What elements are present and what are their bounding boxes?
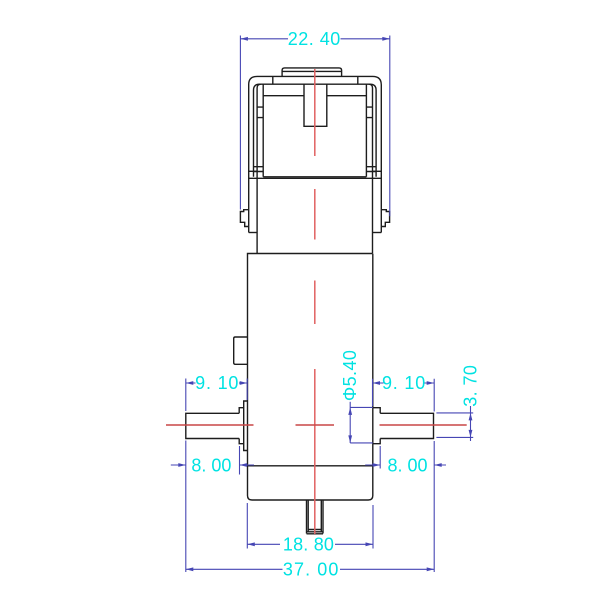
dim 9.10 left ext lines: [186, 379, 247, 412]
arrow 9.10 right-right: [427, 381, 435, 385]
arrow 8.00 right outside-right: [434, 463, 442, 467]
dim 3.70 ext lines: [436, 413, 473, 438]
arrow 37.00 left: [186, 567, 194, 571]
arrow 22.40 left: [240, 37, 248, 41]
gearbox left tab: [234, 337, 248, 364]
end bell bottom line: [263, 176, 366, 178]
arrow 18.80 left: [247, 542, 255, 546]
left lower notch: [254, 167, 264, 172]
right flange: [373, 408, 380, 444]
bottom shaft tip cap: [307, 530, 324, 534]
motor inner shell rim right: [370, 84, 376, 177]
vertical centre line: [314, 69, 316, 534]
arrow 8.00 right outside-left: [373, 463, 381, 467]
svg-text:Φ5.40: Φ5.40: [340, 350, 360, 401]
dim 18.80 line: [247, 543, 373, 545]
svg-text:9. 10: 9. 10: [382, 373, 426, 393]
plateau step left: [272, 76, 274, 84]
arrow 18.80 right: [366, 542, 374, 546]
plateau step right: [357, 76, 359, 84]
can crimp line: [249, 177, 381, 179]
svg-text:8. 00: 8. 00: [191, 455, 231, 475]
arrow 9.10 left-left: [186, 381, 194, 385]
left wall ticks: [257, 107, 263, 118]
crimp ledge right: [373, 170, 382, 172]
blue dimension graphics: [171, 36, 473, 573]
dim phi5.40 ext lines: [350, 407, 373, 443]
right shaft tip ext line lower: [433, 441, 435, 572]
inner face line: [263, 95, 366, 97]
svg-text:8. 00: 8. 00: [387, 455, 427, 475]
svg-text:37. 00: 37. 00: [283, 560, 340, 580]
arrow phi5.40 down: [348, 435, 352, 443]
end face sub walls left: [257, 84, 263, 253]
dim 37.00 line: [186, 568, 434, 570]
arrow 8.00 left outside-right: [240, 463, 248, 467]
dim 9.10 left line: [186, 382, 247, 384]
arrow 3.70 down: [469, 430, 473, 438]
right wall ticks: [366, 107, 372, 118]
left boss disc: [244, 401, 248, 451]
right axle: [380, 413, 433, 438]
svg-text:3. 70: 3. 70: [461, 365, 481, 407]
dim phi5.40 line: [349, 402, 351, 443]
left shaft tip ext line lower: [185, 441, 187, 573]
arrow 37.00 right: [427, 567, 435, 571]
horizontal axle centre line: [166, 424, 467, 426]
dim 18.80 ext lines: [247, 503, 373, 549]
end face sub walls right: [366, 84, 372, 253]
red centre lines: [166, 69, 467, 534]
arrow 8.00 left outside-left: [178, 463, 186, 467]
left axle: [186, 413, 239, 438]
brush slot: [304, 84, 327, 126]
dim 3.70 line: [470, 406, 472, 441]
arrow 9.10 right-left: [373, 381, 381, 385]
below-ear box right: [373, 232, 382, 234]
dim 8.00 right tails: [365, 464, 446, 466]
dim 22.40 extension lines: [240, 36, 389, 217]
dim 8.00 left line+tails: [171, 464, 254, 466]
svg-text:9. 10: 9. 10: [195, 373, 239, 393]
left flange: [239, 408, 244, 444]
bottom output shaft: [307, 500, 324, 534]
arrow 9.10 left-right: [240, 381, 248, 385]
motor top cap lip line: [282, 70, 342, 72]
crimp ledge left: [249, 170, 257, 172]
below-ear box left: [249, 232, 257, 234]
arrow phi5.40 up: [348, 407, 352, 415]
dim 9.10 right line: [373, 382, 435, 384]
gearbox body: [248, 254, 373, 501]
dim 8.00 left ext line: [239, 446, 241, 475]
dimension texts: [191, 29, 480, 580]
left ear: [240, 210, 248, 227]
arrowheads: [178, 37, 472, 571]
svg-text:22. 40: 22. 40: [288, 29, 341, 49]
right ear: [381, 210, 389, 227]
end face top line: [260, 83, 371, 85]
motor top cap: [282, 68, 342, 77]
motor inner shell rim left: [254, 84, 260, 177]
arrow 3.70 up: [469, 413, 473, 421]
dim 22.40 line: [240, 38, 389, 40]
arrow 22.40 right: [382, 37, 390, 41]
dim 9.10 right ext lines: [373, 379, 435, 412]
dim 8.00 right ext line: [379, 446, 381, 469]
motor outer shell: [249, 76, 382, 232]
gearbox ledge: [248, 465, 373, 467]
right lower notch: [366, 167, 376, 172]
svg-text:18. 80: 18. 80: [283, 535, 334, 555]
